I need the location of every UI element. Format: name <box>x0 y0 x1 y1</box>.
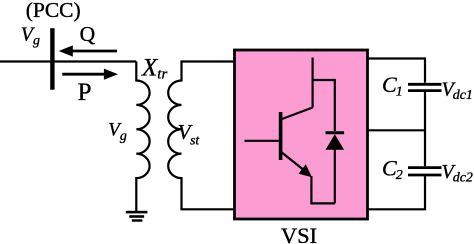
svg-text:Xtr: Xtr <box>141 55 167 83</box>
ground <box>126 211 148 222</box>
wire bottom rail <box>368 175 426 209</box>
svg-text:Vg: Vg <box>108 119 127 144</box>
base bar <box>279 112 283 160</box>
emitter arrowhead <box>299 164 312 177</box>
svg-text:Vdc2: Vdc2 <box>442 161 473 185</box>
wire collector lead <box>312 58 314 108</box>
svg-text:Q: Q <box>80 22 96 46</box>
inductor L1 primary winding Vg <box>136 62 149 212</box>
svg-text:VSI: VSI <box>281 223 317 244</box>
arrow Q (reactive power, pointing left) <box>59 45 117 56</box>
capacitor C2 <box>408 168 442 175</box>
wire top rail to capacitors <box>368 59 426 83</box>
inductor L2 secondary winding Vst <box>168 62 234 210</box>
svg-text:Vg: Vg <box>21 24 40 49</box>
wire between C1 and middle rail <box>424 91 426 131</box>
node PCC bus bar <box>50 28 54 89</box>
wire middle rail <box>368 130 426 166</box>
svg-text:C1: C1 <box>382 72 403 100</box>
wire: feeder line from left edge into left transformer winding <box>0 60 136 62</box>
svg-text:C2: C2 <box>382 156 403 184</box>
wire base lead <box>245 140 279 142</box>
arrow P (active power, pointing right) <box>62 69 118 80</box>
diode D1 (freewheeling, inside VSI) <box>326 133 345 204</box>
capacitor C1 <box>408 84 442 90</box>
VSI converter block <box>235 50 368 219</box>
svg-text:(PCC): (PCC) <box>26 0 81 22</box>
collector diagonal <box>281 108 313 120</box>
transistor Q1 (IGBT inside VSI) <box>245 58 335 204</box>
svg-text:Vdc1: Vdc1 <box>442 78 473 102</box>
svg-text:P: P <box>78 79 92 106</box>
wire emitter down <box>311 176 334 203</box>
svg-text:Vst: Vst <box>178 120 201 148</box>
emitter diagonal <box>281 152 305 172</box>
wire top branch to diode <box>313 80 335 131</box>
